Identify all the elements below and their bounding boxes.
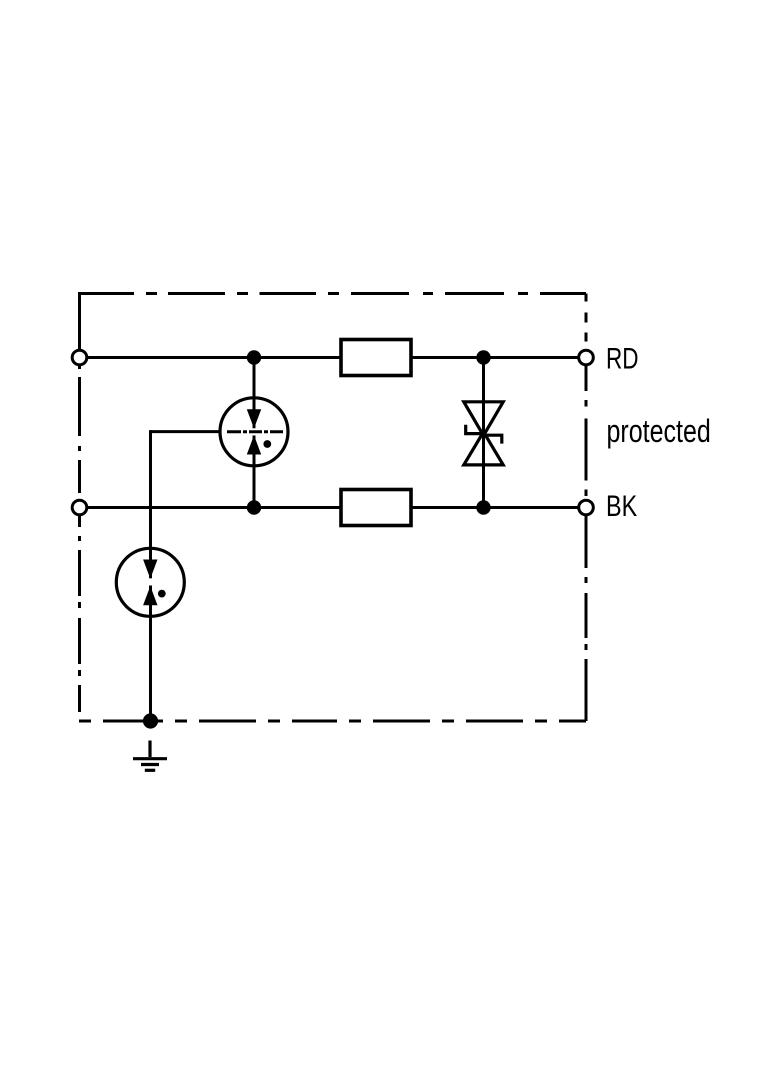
svg-text:protected: protected	[607, 414, 711, 450]
svg-text:RD: RD	[606, 341, 638, 375]
svg-text:BK: BK	[606, 489, 637, 522]
